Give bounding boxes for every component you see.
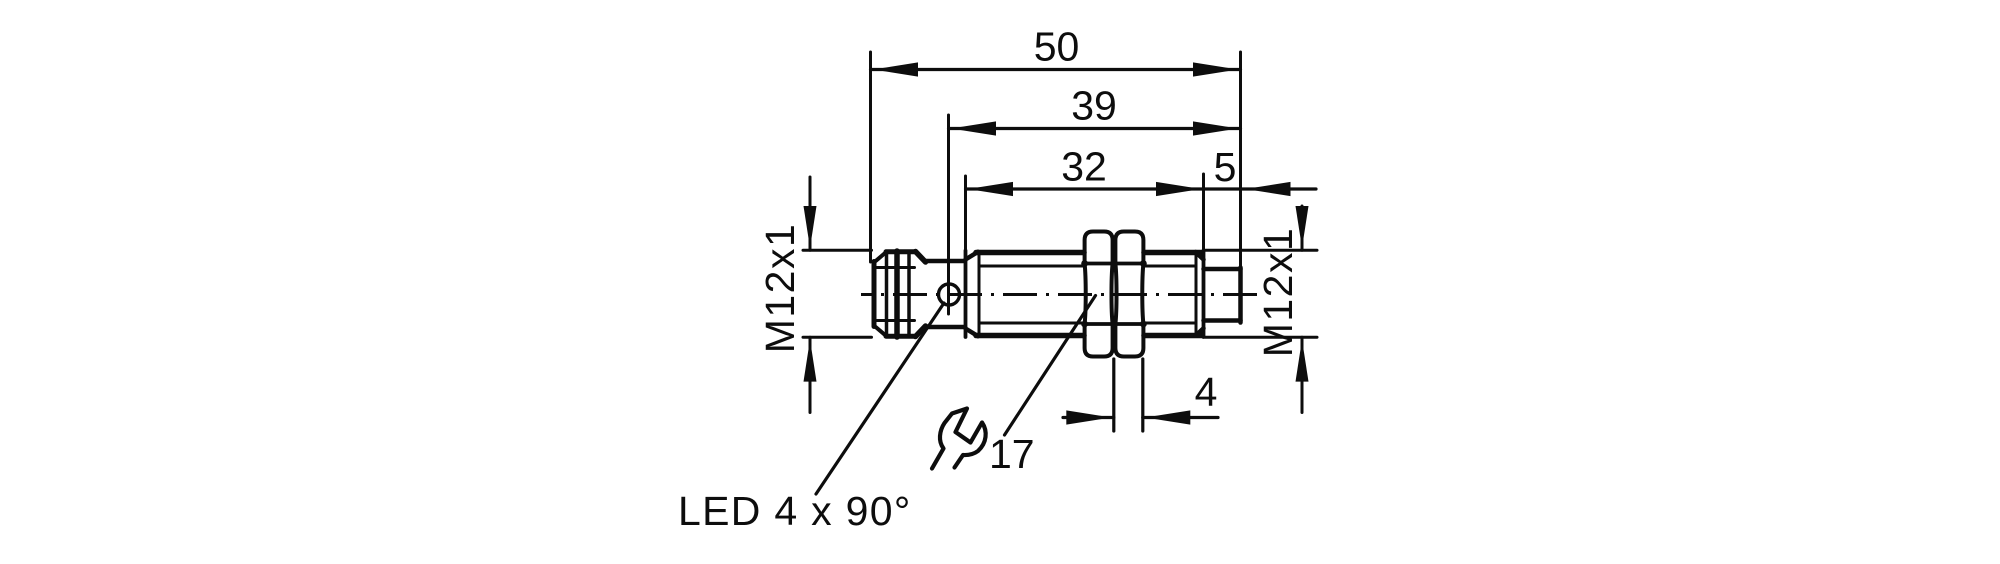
barrel step face bbox=[966, 251, 980, 338]
LED leader line bbox=[816, 303, 944, 494]
dimension 4 bbox=[1063, 359, 1218, 431]
svg-text:50: 50 bbox=[1034, 24, 1080, 70]
connector thread relief lines bbox=[887, 251, 910, 337]
sensing tip bbox=[1204, 268, 1241, 323]
hex nut 2 bbox=[1115, 232, 1143, 357]
dimension M12x1 right bbox=[1296, 206, 1309, 413]
dimension 5 bbox=[1204, 182, 1317, 196]
centerline bbox=[861, 293, 1263, 296]
hex nut 1 bbox=[1085, 232, 1113, 357]
svg-text:39: 39 bbox=[1071, 83, 1117, 129]
svg-text:LED 4 x 90°: LED 4 x 90° bbox=[678, 488, 912, 534]
wrench leader line bbox=[1005, 296, 1096, 436]
svg-text:17: 17 bbox=[989, 431, 1035, 477]
mid section (LED ring) bbox=[925, 261, 965, 327]
hex nut facet lines bbox=[1081, 260, 1147, 328]
svg-text:M12x1: M12x1 bbox=[757, 223, 803, 354]
wrench icon bbox=[932, 409, 986, 469]
LED indicator bbox=[939, 284, 960, 305]
connector thread outline bbox=[886, 252, 926, 337]
svg-text:4: 4 bbox=[1195, 369, 1218, 415]
M12 tick lines right bbox=[1205, 250, 1317, 337]
barrel thread end line bbox=[1195, 252, 1198, 336]
svg-text:32: 32 bbox=[1061, 144, 1107, 190]
dimension M12x1 left bbox=[804, 177, 817, 413]
barrel thread minor lines bbox=[979, 266, 1196, 323]
dimension 32 bbox=[966, 174, 1204, 250]
barrel outline bbox=[976, 253, 1202, 336]
connector thread minor lines bbox=[877, 268, 915, 321]
connector left face bbox=[874, 252, 887, 336]
barrel end face bbox=[1196, 251, 1204, 338]
svg-text:M12x1: M12x1 bbox=[1255, 227, 1301, 358]
dimension 50 bbox=[871, 52, 1241, 266]
svg-text:5: 5 bbox=[1214, 144, 1237, 190]
dimension 39 bbox=[949, 115, 1241, 314]
M12 tick lines left bbox=[803, 250, 872, 337]
